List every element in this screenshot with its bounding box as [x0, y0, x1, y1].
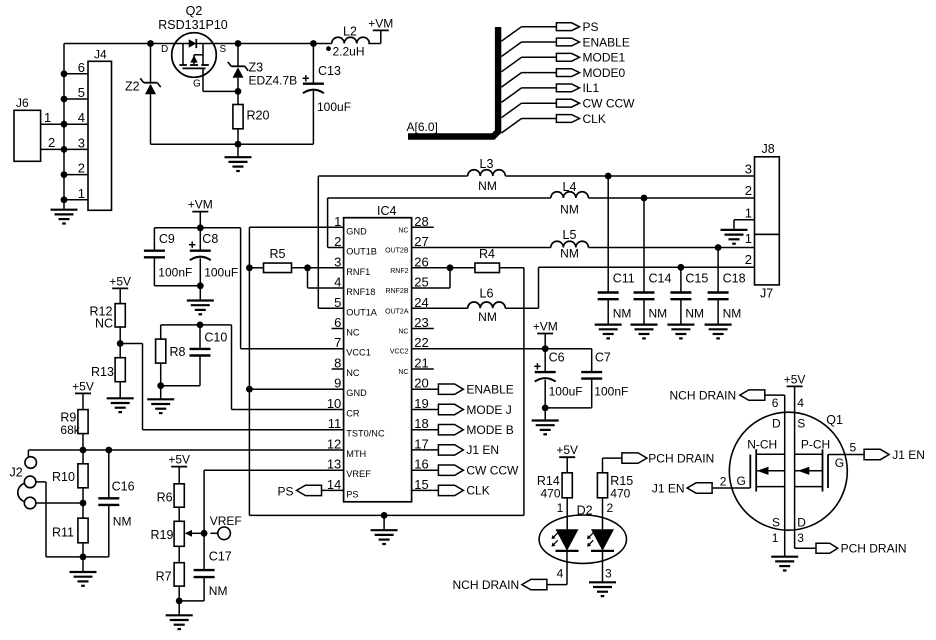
svg-text:L5: L5 [563, 228, 577, 242]
svg-text:C13: C13 [318, 64, 341, 78]
resistor R19 trimmer [151, 521, 205, 562]
connector J8 [734, 142, 779, 234]
node IL1 bus flag [501, 81, 599, 102]
svg-text:CW CCW: CW CCW [583, 97, 636, 111]
ground R7 [166, 601, 193, 629]
power +5V R12 [109, 274, 131, 303]
ground J4 [51, 210, 78, 224]
resistor R7 [156, 563, 185, 605]
svg-text:2: 2 [720, 475, 727, 489]
svg-text:+5V: +5V [109, 274, 131, 288]
svg-text:PS: PS [583, 20, 599, 34]
svg-text:VCC1: VCC1 [346, 348, 371, 358]
wire TST0 net [120, 344, 343, 430]
svg-text:+VM: +VM [368, 16, 393, 30]
svg-text:G: G [835, 456, 844, 470]
svg-text:NM: NM [685, 307, 704, 321]
svg-text:+VM: +VM [533, 320, 558, 334]
svg-text:R13: R13 [91, 365, 114, 379]
svg-text:3: 3 [797, 531, 804, 545]
svg-text:1: 1 [44, 110, 51, 125]
node ENABLE flag [412, 383, 514, 397]
svg-text:+5V: +5V [72, 379, 94, 393]
svg-text:3: 3 [605, 567, 612, 581]
svg-text:3: 3 [745, 162, 752, 177]
svg-text:NM: NM [560, 247, 579, 261]
svg-text:100uF: 100uF [317, 100, 351, 114]
svg-text:L2: L2 [343, 25, 357, 39]
ground J2 divider [70, 557, 97, 586]
ground Q1 source [771, 557, 798, 571]
svg-text:MODE0: MODE0 [583, 66, 626, 80]
transistor Q1 dual MOSFET [729, 396, 847, 545]
ground C8 C9 [187, 286, 214, 315]
svg-text:Q2: Q2 [186, 4, 203, 18]
svg-text:NCH DRAIN: NCH DRAIN [453, 578, 520, 592]
svg-text:2: 2 [78, 161, 85, 176]
svg-text:IC4: IC4 [377, 204, 397, 218]
svg-text:NM: NM [478, 310, 497, 324]
capacitor C17 [179, 533, 232, 601]
node MODE J flag [412, 403, 512, 417]
svg-text:6: 6 [772, 396, 779, 410]
svg-text:CW CCW: CW CCW [466, 464, 519, 478]
svg-text:2: 2 [48, 135, 55, 150]
node PS bus flag [501, 20, 598, 41]
svg-text:ENABLE: ENABLE [466, 383, 513, 397]
resistor R8 [156, 325, 200, 389]
ground R8 [147, 386, 174, 413]
svg-text:2.2uH: 2.2uH [333, 45, 365, 59]
power +5V R14 [556, 443, 578, 473]
inductor L5 [412, 228, 755, 261]
ground Q2 source divider [225, 144, 252, 171]
svg-text:J8: J8 [762, 142, 775, 156]
wire top rail VM input [64, 43, 381, 45]
svg-text:470: 470 [541, 487, 561, 501]
svg-text:J1 EN: J1 EN [652, 481, 685, 495]
svg-text:L4: L4 [563, 180, 577, 194]
node CLK bus flag [501, 112, 605, 133]
svg-text:R6: R6 [157, 491, 173, 505]
svg-text:12: 12 [327, 436, 341, 451]
svg-text:4: 4 [78, 110, 85, 125]
resistor R10 [52, 450, 88, 503]
resistor R5 [249, 247, 343, 273]
connector J2 [10, 457, 37, 509]
svg-text:NM: NM [723, 307, 742, 321]
resistor R14 [537, 473, 572, 530]
svg-text:5: 5 [78, 85, 85, 100]
resistor R6 [157, 484, 185, 522]
wire VCC1 net [241, 228, 344, 349]
resistor R15 [597, 458, 633, 529]
svg-text:R11: R11 [52, 526, 74, 540]
capacitor C8 [189, 228, 238, 289]
svg-text:OUT2B: OUT2B [385, 248, 409, 255]
svg-text:C8: C8 [202, 232, 218, 246]
capacitor C7 [581, 349, 628, 408]
svg-text:RNF1: RNF1 [346, 267, 370, 277]
wire VM node [154, 224, 240, 231]
svg-text:D: D [797, 515, 806, 529]
svg-text:J7: J7 [760, 287, 773, 301]
svg-text:NM: NM [209, 584, 228, 598]
svg-text:J2: J2 [10, 466, 23, 480]
svg-text:VCC2: VCC2 [390, 349, 409, 356]
svg-text:D: D [161, 44, 168, 55]
svg-text:OUT1B: OUT1B [346, 247, 377, 257]
svg-text:J1 EN: J1 EN [892, 448, 925, 462]
resistor R4 [412, 247, 524, 515]
svg-text:C11: C11 [613, 272, 635, 286]
node J1 EN flag left [652, 475, 750, 496]
svg-text:Z2: Z2 [125, 80, 140, 94]
svg-text:PS: PS [277, 484, 293, 498]
bus A[6.0] [407, 27, 499, 137]
node CW CCW flag [412, 464, 519, 478]
svg-text:68k: 68k [60, 423, 80, 437]
svg-text:MODE1: MODE1 [583, 51, 626, 65]
power +5V R6 [168, 453, 190, 484]
svg-text:1: 1 [745, 205, 752, 220]
ground C18 [705, 325, 732, 339]
svg-text:VREF: VREF [210, 514, 242, 528]
svg-text:VREF: VREF [346, 469, 371, 479]
svg-text:NC: NC [398, 329, 408, 336]
wire MTH net [28, 447, 343, 457]
svg-text:NM: NM [560, 203, 579, 217]
inductor L2 [326, 25, 369, 59]
wire J4 bus vertical [61, 44, 68, 210]
transistor Q2 [158, 4, 228, 90]
svg-text:R20: R20 [247, 109, 270, 123]
pin 28 NC stub [412, 226, 434, 228]
svg-text:NC: NC [398, 227, 408, 234]
svg-text:NM: NM [649, 307, 668, 321]
svg-text:D: D [772, 416, 781, 430]
svg-text:Z3: Z3 [249, 61, 264, 75]
svg-text:C17: C17 [209, 550, 232, 564]
wire LED2 cathode [602, 551, 604, 582]
wire GND net left vertical [246, 227, 524, 519]
svg-text:TST0/NC: TST0/NC [346, 429, 385, 439]
svg-text:5: 5 [850, 441, 857, 455]
svg-text:1: 1 [78, 186, 85, 201]
wire RNF18 branch [308, 268, 344, 288]
connector J4 [64, 48, 112, 211]
svg-text:C16: C16 [112, 480, 135, 494]
inductor L4 [328, 180, 755, 248]
svg-text:C10: C10 [204, 331, 227, 345]
node J1 EN flag right [828, 441, 925, 462]
pin 6 NC stub [332, 328, 344, 330]
svg-text:4: 4 [557, 567, 564, 581]
ground C6 C7 [532, 408, 559, 434]
wire Q2 gate [203, 68, 238, 91]
capacitor C18 [708, 248, 746, 325]
wire NCH DRAIN vertical [763, 395, 784, 557]
svg-text:D2: D2 [577, 504, 593, 518]
svg-text:R5: R5 [270, 247, 286, 261]
power +5V R9 [72, 379, 94, 409]
svg-text:R7: R7 [156, 570, 172, 584]
resistor R9 [60, 410, 88, 450]
svg-text:MODE J: MODE J [466, 403, 511, 417]
node NCH DRAIN flag D2 [453, 578, 547, 592]
svg-text:N-CH: N-CH [747, 437, 777, 451]
svg-text:NM: NM [613, 307, 632, 321]
wire J2 pin2 to ground [36, 482, 83, 557]
svg-text:3: 3 [78, 135, 85, 150]
connector J7 [745, 231, 780, 301]
resistor R20 [233, 91, 270, 144]
power +VM top [368, 16, 393, 43]
svg-text:RNF18: RNF18 [346, 287, 375, 297]
svg-text:100nF: 100nF [594, 385, 628, 399]
svg-text:NC: NC [398, 369, 408, 376]
svg-text:CLK: CLK [466, 484, 489, 498]
capacitor C13 [303, 40, 351, 144]
svg-text:OUT2A: OUT2A [385, 308, 409, 315]
svg-text:R19: R19 [151, 528, 174, 542]
svg-text:S: S [797, 416, 805, 430]
svg-text:R4: R4 [479, 247, 495, 261]
node PCH DRAIN flag Q1 [795, 542, 907, 556]
svg-text:6: 6 [78, 60, 85, 75]
capacitor C15 [670, 267, 708, 324]
svg-text:R8: R8 [170, 345, 186, 359]
svg-text:NCH DRAIN: NCH DRAIN [670, 389, 737, 403]
svg-text:1: 1 [745, 231, 752, 246]
svg-text:+5V: +5V [556, 443, 578, 457]
node MODE B flag [412, 423, 514, 437]
wire CR net [161, 322, 344, 410]
power +VM C8 [188, 198, 213, 228]
svg-text:C6: C6 [549, 351, 565, 365]
capacitor C10 [190, 325, 228, 386]
svg-text:C15: C15 [685, 272, 708, 286]
pin 21 NC stub [412, 368, 434, 370]
capacitor C11 [598, 176, 635, 325]
svg-text:NC: NC [346, 328, 360, 338]
svg-text:ENABLE: ENABLE [583, 35, 630, 49]
pin 8 NC stub [332, 368, 344, 370]
resistor R11 [52, 503, 88, 560]
svg-text:Q1: Q1 [826, 413, 843, 427]
pin 23 NC stub [412, 328, 434, 330]
svg-text:CLK: CLK [583, 112, 606, 126]
capacitor C16 [83, 450, 135, 557]
svg-text:470: 470 [610, 487, 630, 501]
svg-text:J1 EN: J1 EN [466, 443, 499, 457]
svg-text:C7: C7 [595, 351, 611, 365]
power +VM C6 [533, 320, 558, 349]
svg-text:C18: C18 [723, 272, 746, 286]
node MODE0 bus flag [501, 66, 625, 87]
ground C15 [667, 325, 694, 339]
svg-text:2: 2 [745, 183, 752, 198]
svg-text:MODE B: MODE B [466, 423, 513, 437]
svg-text:RNF2B: RNF2B [386, 288, 409, 295]
svg-text:L6: L6 [480, 287, 494, 301]
ground D2 [589, 582, 616, 596]
diode Z3 [228, 40, 297, 95]
capacitor C6 [534, 349, 592, 412]
svg-text:PCH DRAIN: PCH DRAIN [841, 542, 907, 556]
svg-text:2: 2 [607, 501, 614, 515]
svg-text:CR: CR [346, 409, 360, 419]
inductor L6 [412, 264, 755, 324]
node J1 EN flag [412, 443, 499, 457]
svg-text:100uF: 100uF [204, 266, 238, 280]
svg-text:+VM: +VM [188, 198, 213, 212]
node CW CCW bus flag [501, 97, 635, 118]
svg-text:C9: C9 [159, 232, 175, 246]
diode D2 dual LED [539, 501, 626, 581]
svg-text:4: 4 [797, 396, 804, 410]
node MODE1 bus flag [501, 51, 625, 72]
svg-text:NM: NM [478, 179, 497, 193]
svg-text:GND: GND [346, 388, 367, 398]
resistor R12 [90, 304, 126, 347]
svg-text:P-CH: P-CH [801, 437, 830, 451]
svg-text:PCH DRAIN: PCH DRAIN [648, 451, 714, 465]
svg-text:A[6.0]: A[6.0] [407, 120, 438, 134]
svg-text:GND: GND [346, 226, 367, 236]
svg-text:J4: J4 [94, 48, 107, 62]
svg-text:OUT1A: OUT1A [346, 307, 378, 317]
connector J6 [14, 96, 64, 161]
node PS flag pin14 [277, 484, 343, 498]
svg-text:S: S [220, 44, 227, 55]
wire VCC2 net [412, 345, 592, 352]
op-amp IC4 motor driver [327, 204, 429, 502]
resistor R13 [91, 344, 125, 399]
svg-text:100uF: 100uF [549, 385, 583, 399]
svg-text:RSD131P10: RSD131P10 [158, 18, 228, 32]
svg-text:+5V: +5V [784, 372, 806, 386]
svg-text:1: 1 [772, 531, 779, 545]
svg-text:C14: C14 [649, 272, 672, 286]
node VREF [201, 470, 344, 539]
svg-text:+5V: +5V [168, 453, 190, 467]
svg-text:100nF: 100nF [158, 266, 192, 280]
ground C14 [631, 325, 658, 339]
svg-text:NC: NC [95, 317, 113, 331]
capacitor C14 [634, 198, 672, 325]
svg-text:NC: NC [346, 368, 360, 378]
node CLK flag [412, 484, 490, 498]
svg-text:J6: J6 [16, 96, 29, 110]
svg-text:R10: R10 [52, 470, 75, 484]
ground C11 [595, 325, 622, 339]
capacitor C9 [144, 228, 200, 286]
svg-text:2: 2 [745, 252, 752, 267]
svg-text:S: S [772, 515, 780, 529]
diode Z2 [125, 40, 161, 144]
wire Q2 bottom rail [151, 141, 314, 148]
power +5V Q1 [784, 372, 806, 548]
ground IC4 [371, 515, 398, 544]
svg-text:PS: PS [346, 489, 358, 499]
node NCH DRAIN flag Q1 [670, 389, 765, 403]
node PCH DRAIN flag R15 [603, 451, 715, 465]
wire RNF2B branch [412, 268, 450, 288]
inductor L3 [318, 157, 754, 308]
svg-text:IL1: IL1 [583, 81, 600, 95]
wire J2 pin3 [36, 500, 87, 507]
svg-text:1: 1 [557, 501, 564, 515]
ground J8 pin1 [721, 230, 748, 244]
svg-text:G: G [737, 474, 746, 488]
node ENABLE bus flag [501, 35, 629, 56]
wire LED1 cathode to NCH DRAIN [548, 551, 568, 585]
ground R13 [107, 398, 134, 412]
svg-text:G: G [193, 79, 201, 90]
svg-text:RNF2: RNF2 [390, 268, 408, 275]
svg-text:L3: L3 [480, 157, 494, 171]
svg-text:NM: NM [113, 515, 132, 529]
svg-text:MTH: MTH [346, 449, 366, 459]
svg-text:EDZ4.7B: EDZ4.7B [249, 74, 298, 88]
